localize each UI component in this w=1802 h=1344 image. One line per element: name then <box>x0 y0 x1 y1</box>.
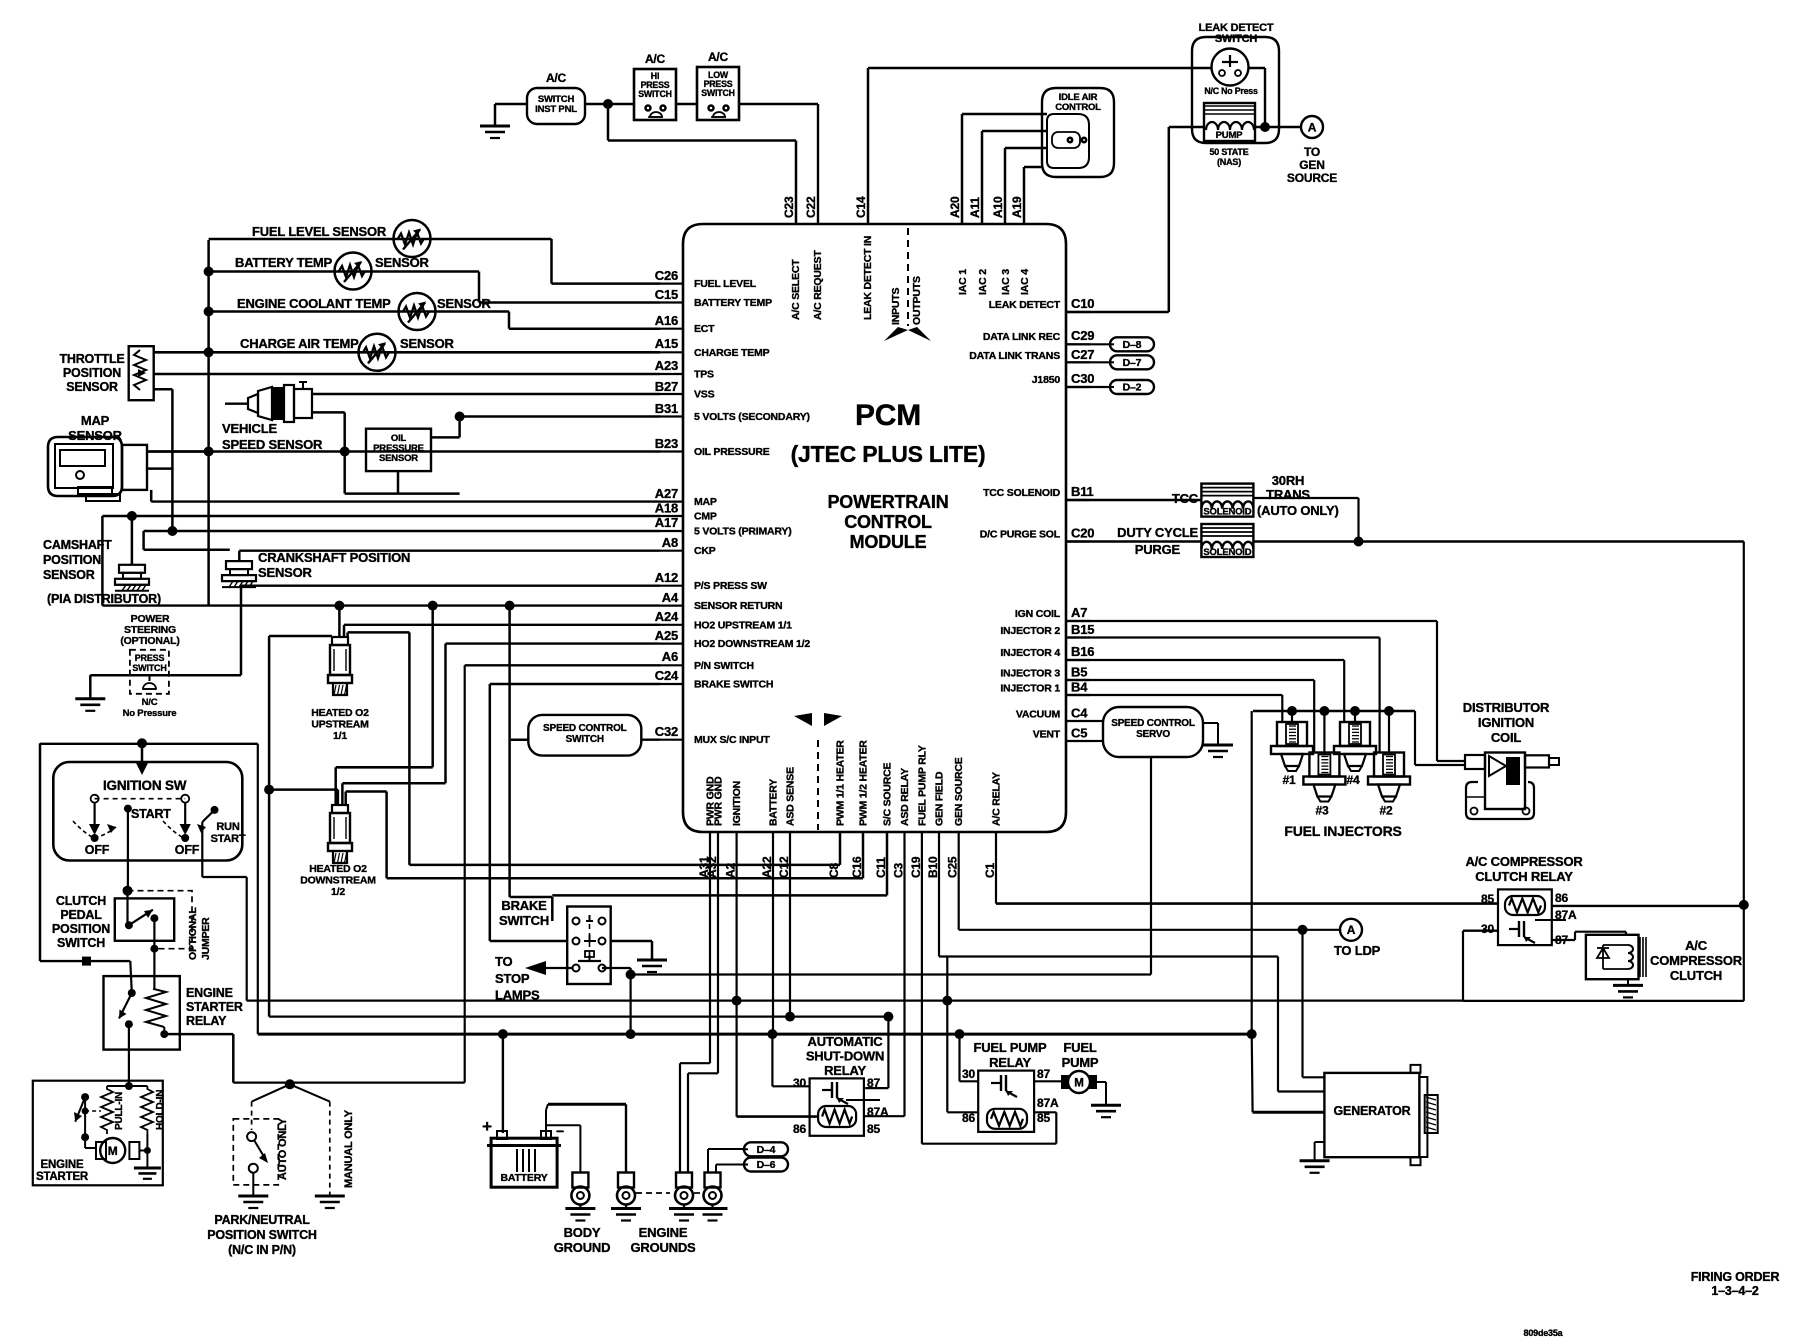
svg-text:A/C COMPRESSOR: A/C COMPRESSOR <box>1465 854 1583 869</box>
svg-text:FUEL PUMP: FUEL PUMP <box>973 1040 1047 1055</box>
fuel injector #2 <box>1374 753 1404 777</box>
pn fork dot <box>285 1079 295 1089</box>
IAC wire A11 <box>981 131 984 224</box>
d7 pill <box>1066 361 1108 363</box>
a/c relay 87 wire <box>1552 939 1575 941</box>
ignition dashed bar <box>95 798 186 800</box>
junction dot ignition feed <box>137 738 147 748</box>
5v primary wire A17 <box>144 530 660 532</box>
svg-text:50 STATE: 50 STATE <box>1209 147 1248 157</box>
junction dot map return <box>204 447 214 457</box>
charge air temp sensor <box>359 334 396 371</box>
svg-text:PWM 1/1 HEATER: PWM 1/1 HEATER <box>835 740 847 826</box>
svg-text:#1: #1 <box>1283 773 1296 787</box>
svg-text:DATA LINK REC: DATA LINK REC <box>983 331 1061 343</box>
svg-text:P/N SWITCH: P/N SWITCH <box>694 660 754 672</box>
press switch symbol <box>149 675 151 681</box>
svg-text:SWITCH: SWITCH <box>701 88 735 98</box>
5v secondary wire B31 <box>460 415 660 417</box>
svg-text:C15: C15 <box>655 287 678 302</box>
svg-text:CAMSHAFT: CAMSHAFT <box>43 538 112 552</box>
dc purge solenoid <box>1201 524 1253 557</box>
svg-text:HOLD-IN: HOLD-IN <box>155 1090 166 1130</box>
ignition run start contact <box>211 806 219 814</box>
clutch switch box <box>115 898 174 940</box>
svg-text:SERVO: SERVO <box>1136 729 1170 740</box>
svg-text:#2: #2 <box>1380 804 1393 818</box>
sensor return wire A4 <box>102 604 660 606</box>
asd relay control C3 <box>903 832 905 1116</box>
svg-text:J1850: J1850 <box>1032 374 1061 386</box>
svg-text:GEN SOURCE: GEN SOURCE <box>953 757 965 826</box>
servo supply riser <box>1150 757 1152 975</box>
svg-text:SPEED CONTROL: SPEED CONTROL <box>543 723 627 734</box>
svg-text:SENSOR RETURN: SENSOR RETURN <box>694 600 782 612</box>
asd 30 branch <box>771 1034 773 1086</box>
svg-text:GENERATOR: GENERATOR <box>1334 1104 1411 1118</box>
svg-text:ASD SENSE: ASD SENSE <box>785 767 797 826</box>
fp 30 branch <box>958 1034 960 1081</box>
svg-text:85: 85 <box>867 1122 880 1136</box>
svg-text:SENSOR: SENSOR <box>43 568 95 582</box>
svg-text:ENGINE: ENGINE <box>186 986 233 1000</box>
svg-text:TO: TO <box>495 954 513 969</box>
a/c relay contact <box>1509 928 1519 930</box>
gen source to generator <box>1301 930 1303 1078</box>
ignition coil connector <box>1465 755 1485 769</box>
TPS third wire <box>154 388 173 391</box>
pwm heater wire C8 <box>839 832 842 865</box>
svg-text:INPUTS: INPUTS <box>890 288 902 326</box>
fp relay contact <box>991 1082 1001 1084</box>
svg-text:RELAY: RELAY <box>186 1014 227 1028</box>
ignition feed arrow <box>141 743 144 762</box>
svg-text:A/C: A/C <box>645 52 666 66</box>
map connector <box>122 445 147 490</box>
svg-text:A24: A24 <box>655 609 679 624</box>
esr coil return to PN line <box>164 1033 180 1036</box>
svg-text:FUEL LEVEL: FUEL LEVEL <box>694 278 757 290</box>
battery box <box>491 1138 557 1187</box>
pwr gnd wire A31 <box>709 832 711 1063</box>
svg-text:A27: A27 <box>655 486 678 501</box>
svg-text:87A: 87A <box>867 1105 889 1119</box>
svg-text:IAC 2: IAC 2 <box>977 269 989 295</box>
asd 87a stub <box>846 1099 864 1101</box>
charge air wire <box>154 351 660 354</box>
svg-text:TPS: TPS <box>694 369 714 381</box>
fuel injector #1 <box>1277 722 1307 746</box>
svg-text:C20: C20 <box>1071 526 1094 541</box>
svg-text:OPTIONAL: OPTIONAL <box>187 907 199 960</box>
wire C14 to leak detect switch <box>867 68 870 224</box>
svg-text:BRAKE SWITCH: BRAKE SWITCH <box>694 679 773 691</box>
b+ dots <box>498 1029 508 1039</box>
svg-text:TO LDP: TO LDP <box>1334 943 1381 958</box>
svg-text:C23: C23 <box>782 196 796 218</box>
svg-text:A16: A16 <box>655 313 678 328</box>
svg-text:D/C PURGE SOL: D/C PURGE SOL <box>980 529 1061 541</box>
oil pressure sensor box <box>366 429 431 471</box>
to gen source tag <box>1301 116 1323 138</box>
svg-text:CONTROL: CONTROL <box>1055 102 1101 113</box>
svg-text:SWITCH: SWITCH <box>57 936 105 950</box>
svg-text:TCC SOLENOID: TCC SOLENOID <box>983 487 1061 499</box>
fp 86 ignition drop <box>946 1001 948 1113</box>
svg-text:CRANKSHAFT POSITION: CRANKSHAFT POSITION <box>258 550 410 565</box>
svg-text:A8: A8 <box>662 535 678 550</box>
asd 87 drop <box>887 1017 889 1089</box>
svg-text:SENSOR: SENSOR <box>258 565 313 580</box>
fuel level sensor <box>394 220 431 257</box>
ckp wire A8 <box>239 550 660 552</box>
svg-text:(PIA DISTRIBUTOR): (PIA DISTRIBUTOR) <box>47 592 161 606</box>
a/c relay wire C1 <box>995 832 997 904</box>
svg-text:D–4: D–4 <box>757 1144 776 1156</box>
svg-text:C5: C5 <box>1071 726 1087 741</box>
d6 pill <box>744 1158 788 1172</box>
svg-text:IGNITION: IGNITION <box>1478 715 1534 730</box>
a/c compressor clutch box <box>1586 935 1639 979</box>
fuel pump rly wire C19 <box>921 832 923 1144</box>
junction dot vss <box>340 447 350 457</box>
svg-text:A: A <box>1308 121 1317 135</box>
svg-text:POSITION: POSITION <box>63 366 121 380</box>
asd sense line <box>269 1015 888 1017</box>
svg-text:B5: B5 <box>1071 665 1087 680</box>
svg-text:CLUTCH: CLUTCH <box>1670 968 1722 983</box>
svg-text:HEATED O2: HEATED O2 <box>311 707 369 719</box>
injector 4 wire B16 <box>1066 659 1344 661</box>
starter feed <box>128 1024 130 1086</box>
feed line to ignition switch <box>40 743 258 745</box>
svg-text:A/C: A/C <box>708 50 729 64</box>
starter motor <box>96 1142 106 1159</box>
ignition coil tower <box>1525 755 1549 767</box>
svg-text:MUX S/C INPUT: MUX S/C INPUT <box>694 734 770 746</box>
ground at A/C switch <box>495 103 527 106</box>
svg-text:DISTRIBUTOR: DISTRIBUTOR <box>1463 700 1550 715</box>
fuel level wire <box>209 238 552 241</box>
svg-text:D–2: D–2 <box>1123 382 1142 394</box>
svg-text:OFF: OFF <box>85 843 110 857</box>
ignition line dots <box>732 996 742 1006</box>
a/c relay 30 wire <box>1463 930 1498 932</box>
body ground ring <box>572 1173 588 1188</box>
svg-text:THROTTLE: THROTTLE <box>59 352 124 366</box>
svg-text:A/C RELAY: A/C RELAY <box>991 772 1003 826</box>
svg-text:M: M <box>108 1144 118 1158</box>
svg-text:A: A <box>1347 923 1356 937</box>
leak detect switch box <box>1192 37 1279 143</box>
svg-text:IGNITION SW: IGNITION SW <box>103 778 187 793</box>
a12 wire <box>241 585 660 587</box>
esr coil <box>146 989 166 1027</box>
battery minus to body ground <box>546 1124 580 1126</box>
ignition run line <box>247 999 1463 1001</box>
svg-text:TCC: TCC <box>1172 491 1199 506</box>
crankshaft sensor symbol <box>226 561 252 569</box>
svg-text:1–3–4–2: 1–3–4–2 <box>1711 1284 1759 1298</box>
svg-text:(NAS): (NAS) <box>1217 157 1241 167</box>
svg-text:OFF: OFF <box>175 843 200 857</box>
servo ground <box>1203 722 1218 724</box>
d2 pill <box>1066 386 1108 388</box>
svg-text:C29: C29 <box>1071 328 1094 343</box>
svg-text:HEATED O2: HEATED O2 <box>309 863 367 875</box>
A/C hi press switch <box>634 69 676 120</box>
svg-text:+: + <box>482 1117 492 1136</box>
heated O2 upstream sensor <box>332 637 348 645</box>
svg-text:A/C REQUEST: A/C REQUEST <box>812 250 824 320</box>
bus dots <box>1287 706 1297 716</box>
a/c relay 87a stub <box>1535 919 1552 921</box>
svg-text:START: START <box>211 833 246 845</box>
svg-text:PUMP: PUMP <box>1062 1055 1099 1070</box>
svg-text:B16: B16 <box>1071 644 1094 659</box>
svg-text:SWITCH: SWITCH <box>499 913 549 928</box>
s/c source wire C11 <box>886 832 889 895</box>
svg-text:HO2 DOWNSTREAM 1/2: HO2 DOWNSTREAM 1/2 <box>694 638 810 650</box>
svg-text:VSS: VSS <box>694 389 715 401</box>
svg-text:SENSOR: SENSOR <box>375 255 430 270</box>
cmp wire A18 <box>102 515 660 517</box>
asd relay contact <box>822 1089 832 1091</box>
svg-text:INJECTOR 2: INJECTOR 2 <box>1000 625 1060 637</box>
asd sense dots <box>785 1012 795 1022</box>
tcc solenoid <box>1201 484 1253 517</box>
svg-text:A23: A23 <box>655 358 678 373</box>
vss wires <box>312 393 660 395</box>
svg-text:ENGINE: ENGINE <box>41 1159 84 1171</box>
injector 1 wire B4 <box>1066 694 1282 696</box>
brake switch row3 <box>573 965 580 972</box>
injector supply bus <box>1253 710 1415 712</box>
svg-text:BODY: BODY <box>564 1225 601 1240</box>
svg-text:87: 87 <box>1037 1067 1050 1081</box>
pn switch line <box>233 1081 464 1083</box>
brake switch wire C24 <box>490 683 660 685</box>
svg-text:LEAK DETECT IN: LEAK DETECT IN <box>862 236 874 320</box>
svg-text:30: 30 <box>793 1076 806 1090</box>
svg-text:MAP: MAP <box>81 413 110 428</box>
svg-text:PWR GND: PWR GND <box>713 776 725 826</box>
svg-text:A17: A17 <box>655 515 678 530</box>
svg-text:GEN FIELD: GEN FIELD <box>934 771 946 826</box>
svg-text:POWERTRAIN: POWERTRAIN <box>828 492 949 512</box>
leak detect pump box <box>1204 103 1255 141</box>
battery temp wire <box>209 270 479 273</box>
svg-text:MAP: MAP <box>694 496 717 508</box>
svg-text:(JTEC PLUS LITE): (JTEC PLUS LITE) <box>791 441 986 467</box>
fuel pump 87 wire <box>1034 1080 1061 1082</box>
pwr gnd wire A32 <box>717 832 719 1073</box>
svg-text:GEN: GEN <box>1299 158 1324 172</box>
speed control switch feed <box>511 738 529 741</box>
ignition coil bracket <box>1466 782 1534 819</box>
gen source dot <box>1298 925 1308 935</box>
svg-text:FUEL INJECTORS: FUEL INJECTORS <box>1284 823 1401 839</box>
map sensor body <box>48 437 122 496</box>
starter hold-in coil <box>141 1086 153 1134</box>
stop lamp feed riser <box>602 967 631 969</box>
right edge drop <box>1743 542 1745 905</box>
svg-text:VACUUM: VACUUM <box>1016 709 1061 721</box>
a/c relay 86 wire <box>1552 905 1744 907</box>
svg-text:BATTERY TEMP: BATTERY TEMP <box>694 297 772 309</box>
wire between press switches <box>676 103 697 105</box>
svg-text:30RH: 30RH <box>1272 473 1304 488</box>
clutch switch symbol <box>126 891 128 926</box>
svg-text:A/C SELECT: A/C SELECT <box>790 259 802 320</box>
svg-text:POSITION: POSITION <box>43 553 101 567</box>
svg-text:STARTER: STARTER <box>186 1000 243 1014</box>
wire A/C switch to press switches <box>585 103 634 105</box>
svg-text:B15: B15 <box>1071 622 1094 637</box>
engine starter box <box>33 1081 163 1186</box>
c5 wire <box>1090 740 1103 742</box>
svg-text:5 VOLTS (PRIMARY): 5 VOLTS (PRIMARY) <box>694 526 792 538</box>
IAC wire A19 <box>1023 167 1026 224</box>
oil pressure signal wire B23 <box>147 450 660 452</box>
svg-text:D–8: D–8 <box>1123 339 1142 351</box>
o2 upstream wires <box>338 606 341 637</box>
junction dot coolant <box>204 307 214 317</box>
junction dot A/C line <box>603 99 613 109</box>
svg-text:5 VOLTS (SECONDARY): 5 VOLTS (SECONDARY) <box>694 411 810 423</box>
a/c 86 dot <box>1739 900 1749 910</box>
svg-text:D–7: D–7 <box>1123 357 1142 369</box>
svg-text:CONTROL: CONTROL <box>844 512 932 532</box>
svg-text:C27: C27 <box>1071 347 1094 362</box>
purge line dot <box>1354 537 1364 547</box>
manual only dashed <box>329 1102 331 1196</box>
map wires <box>147 450 208 453</box>
svg-text:B31: B31 <box>655 401 678 416</box>
bus to coil <box>1414 711 1416 765</box>
svg-text:SHUT-DOWN: SHUT-DOWN <box>806 1049 884 1064</box>
purge wire C20 <box>1066 540 1201 542</box>
svg-text:P/S PRESS SW: P/S PRESS SW <box>694 580 767 592</box>
ignition pole 2 <box>184 802 186 826</box>
auto only dashed <box>251 1102 253 1130</box>
A2 ignition pin wire <box>735 832 737 1001</box>
svg-text:A4: A4 <box>662 590 679 605</box>
svg-text:IGNITION: IGNITION <box>731 781 743 826</box>
svg-text:SOLENOID: SOLENOID <box>1203 507 1251 518</box>
svg-text:A15: A15 <box>655 336 678 351</box>
svg-text:30: 30 <box>1481 922 1494 936</box>
fuel injector #4 <box>1340 722 1370 746</box>
junction dot at pump output <box>1260 122 1270 132</box>
TPS wiper wire <box>154 373 660 375</box>
svg-text:86: 86 <box>793 1122 806 1136</box>
generator right details <box>1411 1065 1421 1073</box>
IAC wire A20 <box>961 114 964 224</box>
svg-text:SOLENOID: SOLENOID <box>1203 547 1251 558</box>
svg-text:LEAK DETECT: LEAK DETECT <box>989 299 1061 311</box>
a/c clutch ground <box>1627 979 1629 985</box>
svg-text:COMPRESSOR: COMPRESSOR <box>1650 953 1743 968</box>
svg-text:A25: A25 <box>655 628 678 643</box>
coolant wire <box>209 310 509 313</box>
svg-text:ENGINE COOLANT TEMP: ENGINE COOLANT TEMP <box>237 296 391 311</box>
svg-text:IGN COIL: IGN COIL <box>1015 608 1061 620</box>
press switch dashed box <box>130 650 169 694</box>
junction dot oil 5v <box>455 412 465 422</box>
ignition run output <box>202 810 214 822</box>
svg-text:A/C: A/C <box>546 71 567 85</box>
svg-text:CLUTCH: CLUTCH <box>56 894 106 908</box>
map signal wire A27 <box>151 500 660 502</box>
svg-text:N/C No Press: N/C No Press <box>1204 86 1258 96</box>
junction dot 5v primary <box>167 526 177 536</box>
tcc loop wire <box>1253 497 1358 499</box>
brake switch box <box>567 907 611 985</box>
svg-text:A19: A19 <box>1010 196 1024 218</box>
ignition run riser <box>246 877 248 1001</box>
d8 pill <box>1066 343 1108 345</box>
svg-text:C22: C22 <box>804 196 818 218</box>
svg-text:B27: B27 <box>655 379 678 394</box>
svg-text:STOP: STOP <box>495 971 530 986</box>
svg-text:MANUAL ONLY: MANUAL ONLY <box>343 1109 355 1188</box>
svg-text:PCM: PCM <box>855 399 921 432</box>
svg-text:IAC 3: IAC 3 <box>1000 269 1012 295</box>
svg-text:SWITCH: SWITCH <box>1215 33 1257 45</box>
svg-text:RELAY: RELAY <box>989 1055 1031 1070</box>
brake switch ground <box>611 940 652 943</box>
svg-text:DATA LINK TRANS: DATA LINK TRANS <box>969 350 1060 362</box>
svg-text:SPEED SENSOR: SPEED SENSOR <box>222 437 323 452</box>
svg-text:B11: B11 <box>1071 484 1094 499</box>
svg-text:1/2: 1/2 <box>331 886 345 898</box>
battery minus to engine ground <box>545 1110 547 1139</box>
svg-text:(OPTIONAL): (OPTIONAL) <box>120 635 179 647</box>
svg-text:C30: C30 <box>1071 371 1094 386</box>
svg-text:FIRING ORDER: FIRING ORDER <box>1691 1270 1780 1284</box>
c32 wire <box>641 739 660 741</box>
svg-text:COIL: COIL <box>1491 730 1522 745</box>
svg-text:BRAKE: BRAKE <box>501 898 547 913</box>
svg-text:AUTOMATIC: AUTOMATIC <box>808 1034 884 1049</box>
throttle position sensor box <box>129 346 154 400</box>
battery b+ line <box>258 1033 1252 1036</box>
starter pull-in coil <box>101 1086 113 1134</box>
svg-text:ENGINE: ENGINE <box>639 1225 688 1240</box>
a/c clutch diode <box>1602 945 1604 969</box>
clutch switch output <box>153 918 155 989</box>
speed control supply wire <box>631 973 1151 975</box>
svg-text:BATTERY: BATTERY <box>768 779 780 826</box>
battery temp sensor <box>335 253 372 290</box>
svg-text:A10: A10 <box>991 196 1005 218</box>
svg-text:BATTERY TEMP: BATTERY TEMP <box>235 255 333 270</box>
svg-text:OUTPUTS: OUTPUTS <box>911 276 923 325</box>
svg-text:TRANS: TRANS <box>1266 487 1310 502</box>
fuel injector #3 <box>1309 753 1339 777</box>
ignition pole 1 <box>93 802 95 826</box>
svg-text:TO: TO <box>1304 145 1320 159</box>
tcc wire B11 <box>1066 499 1201 501</box>
svg-text:SENSOR: SENSOR <box>437 296 492 311</box>
idle air control inner connector <box>1047 114 1089 168</box>
A22 battery pin wire <box>772 832 774 1034</box>
A2 to ASD 86 <box>735 1001 737 1117</box>
junction dot battery temp <box>204 267 214 277</box>
inputs/outputs dashed arrow (top) <box>907 228 909 326</box>
pwm heater wire C16 <box>862 832 865 878</box>
